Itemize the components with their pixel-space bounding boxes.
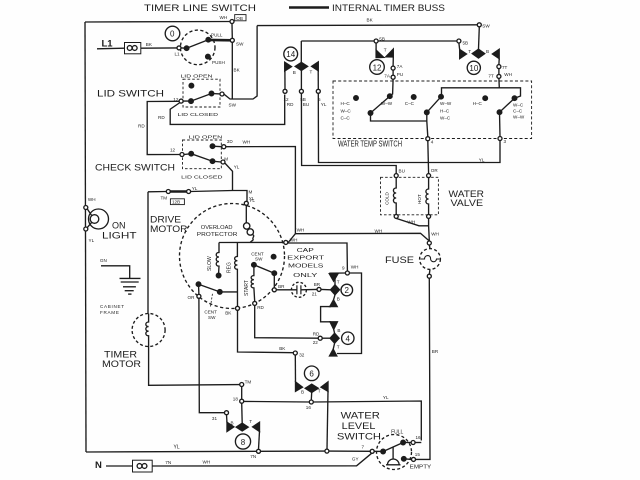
wire N run to water level switch	[152, 453, 372, 466]
right cent sw pivot	[252, 263, 257, 268]
wire between 7A terminals	[392, 70, 394, 75]
wire ground stem	[101, 266, 130, 278]
contact dot lid open	[189, 83, 194, 88]
cam 2 bottom flag	[330, 300, 337, 307]
svg-text:T: T	[384, 47, 387, 52]
wire 7A into water temp switch	[390, 79, 393, 96]
cam 10 left flag	[460, 50, 467, 59]
wire cam2 diamond to bottom flag	[334, 295, 336, 300]
terminal 15 of WLS	[412, 457, 416, 461]
svg-text:T: T	[318, 389, 321, 394]
left cent sw pivot	[198, 284, 200, 294]
svg-text:TM: TM	[245, 380, 252, 385]
svg-text:SWITCH: SWITCH	[337, 432, 381, 442]
svg-text:T: T	[337, 344, 340, 349]
terminal TM	[240, 383, 244, 387]
wire N lead	[106, 465, 133, 467]
timer cam circle 4	[342, 332, 354, 344]
svg-text:6: 6	[309, 370, 314, 379]
WLS arm to FULL	[383, 443, 403, 452]
left cent sw arm	[199, 284, 220, 292]
svg-text:BK: BK	[225, 311, 232, 316]
check switch arm	[184, 154, 213, 162]
wire WTS internal 7T bar	[442, 88, 521, 98]
terminal SW of buss	[477, 23, 481, 27]
contact dot right arm end	[272, 271, 277, 276]
svg-text:WATER: WATER	[341, 411, 381, 421]
wire cam4 to bottom flag	[333, 343, 334, 349]
svg-text:MOTOR: MOTOR	[150, 224, 188, 234]
svg-text:VALVE: VALVE	[451, 198, 484, 208]
wire timer motor to TM terminal	[149, 347, 240, 386]
svg-text:TM: TM	[161, 196, 168, 201]
wire connector to M junction	[191, 191, 247, 202]
svg-text:PROTECTOR: PROTECTOR	[197, 232, 238, 238]
terminal 7T lower (WH)	[497, 74, 501, 78]
wire cam4 stem	[333, 329, 336, 333]
water temp switch dashed box	[333, 81, 532, 139]
svg-text:TIMER LINE SWITCH: TIMER LINE SWITCH	[144, 3, 256, 13]
svg-text:FRAME: FRAME	[100, 310, 120, 315]
WLS pivot dot	[381, 449, 386, 454]
terminal 7 of WLS	[370, 449, 374, 453]
svg-text:GY: GY	[352, 456, 359, 461]
svg-text:LID OPEN: LID OPEN	[189, 134, 223, 139]
timer motor dashed circle	[132, 314, 165, 347]
terminal TM connector right	[187, 190, 191, 194]
svg-text:7: 7	[362, 445, 365, 450]
legend thick line INTERNAL TIMER BUSS	[289, 6, 329, 9]
wire cam14 stem from 5B corner	[300, 41, 302, 63]
cam 2 top flag	[329, 274, 338, 282]
lid switch arm	[183, 94, 211, 102]
svg-text:H–C: H–C	[473, 101, 483, 106]
svg-text:BK: BK	[279, 346, 286, 351]
WTS arm 2	[427, 97, 441, 113]
contact dot F	[512, 96, 517, 101]
cam 6 left flag	[296, 382, 303, 391]
wire 5B-1 drop	[375, 43, 377, 50]
svg-text:4: 4	[346, 335, 351, 344]
timer cam circle 12	[370, 60, 385, 75]
svg-text:16: 16	[306, 405, 312, 410]
svg-text:B: B	[337, 297, 340, 302]
svg-text:7T: 7T	[502, 65, 508, 70]
svg-text:3D: 3D	[227, 139, 234, 144]
wire L1 lead-in	[97, 47, 125, 50]
svg-text:12B: 12B	[172, 200, 180, 205]
wire 7A drop	[392, 57, 394, 66]
contact dot A	[354, 96, 359, 101]
terminal 16 of WLS	[411, 441, 415, 445]
svg-text:SW: SW	[255, 257, 263, 262]
svg-text:LID OPEN: LID OPEN	[181, 73, 213, 78]
START coil	[251, 265, 255, 302]
terminal WH of motor	[284, 240, 288, 244]
svg-text:BK: BK	[234, 68, 241, 73]
connector plug on N line	[133, 460, 153, 472]
svg-text:W–C: W–C	[341, 109, 352, 114]
svg-text:SW: SW	[236, 41, 244, 46]
terminal 5 YL	[316, 89, 320, 93]
terminal WH on left frame (on light top)	[84, 206, 88, 210]
cam 8 right flag	[253, 422, 260, 431]
wire BR to capacitor	[276, 289, 297, 291]
connector label box OB	[235, 15, 246, 21]
svg-text:B: B	[231, 420, 234, 425]
wire OR drop to 31	[199, 298, 225, 412]
svg-text:7A: 7A	[397, 64, 404, 69]
wire RD motor to 22	[255, 305, 319, 338]
svg-text:H–C: H–C	[440, 108, 450, 113]
svg-text:8: 8	[241, 438, 246, 447]
timer cam circle 10	[467, 61, 480, 74]
wire between 7T terminals	[498, 69, 500, 75]
terminal BR of motor	[272, 288, 276, 292]
cam 12 left flag	[376, 50, 384, 58]
terminal RD of motor	[253, 301, 257, 305]
svg-text:INTERNAL TIMER BUSS: INTERNAL TIMER BUSS	[332, 3, 445, 13]
contact dot PULL	[206, 37, 211, 42]
svg-text:C–C: C–C	[341, 116, 351, 121]
svg-text:M: M	[249, 190, 253, 195]
wire 7T drop	[498, 59, 500, 65]
connector label box 12B	[170, 199, 184, 205]
contact dot check upper (3D)	[210, 144, 215, 149]
svg-text:WH: WH	[375, 228, 383, 233]
timer line switch dashed circle	[180, 30, 215, 65]
svg-text:EMPTY: EMPTY	[410, 464, 432, 470]
motor internal bus bar	[219, 241, 284, 243]
wire junction to fuse	[428, 245, 431, 249]
svg-text:W–C: W–C	[513, 102, 524, 107]
terminal cold bottom	[394, 214, 398, 218]
cam 6 right flag	[321, 382, 328, 391]
svg-text:COLD: COLD	[384, 191, 389, 204]
cam 12 right flag	[386, 49, 394, 57]
svg-text:WH: WH	[220, 15, 228, 20]
terminal M of check switch	[221, 160, 225, 164]
contact dot PUSH	[206, 54, 211, 59]
svg-text:YL: YL	[383, 395, 389, 400]
svg-text:MODELS: MODELS	[288, 263, 324, 269]
svg-text:OR: OR	[431, 168, 439, 173]
svg-text:21: 21	[312, 291, 318, 296]
contact dot D	[439, 94, 444, 99]
svg-text:FUSE: FUSE	[385, 255, 414, 265]
cam 4 top flag	[330, 322, 337, 330]
terminal 12 of lid switch	[179, 99, 183, 103]
wire lid 12 to RD run (to cam 14)	[170, 95, 285, 125]
wire 21 to cam 2	[321, 288, 331, 290]
cam 10 right flag	[492, 49, 499, 58]
wire lid switch SW to riser	[224, 26, 257, 99]
svg-text:WH: WH	[243, 140, 251, 145]
terminal 12 of check switch	[180, 153, 184, 157]
svg-text:CHECK SWITCH: CHECK SWITCH	[95, 163, 175, 173]
cam 6 diamond	[305, 384, 318, 392]
terminal 9 WH	[345, 271, 349, 275]
svg-text:YL: YL	[249, 198, 255, 203]
svg-text:PU: PU	[397, 72, 403, 77]
svg-text:BK: BK	[367, 18, 374, 23]
svg-text:7T: 7T	[488, 73, 494, 78]
svg-text:18: 18	[233, 397, 239, 402]
wire BU drop to water valve	[301, 93, 396, 173]
terminal 7A lower (PU)	[391, 75, 395, 79]
terminal 22 RD	[318, 336, 322, 340]
svg-text:WH: WH	[504, 72, 512, 77]
terminal 32	[293, 351, 297, 355]
terminal M YL of motor	[244, 201, 248, 205]
svg-text:32: 32	[299, 353, 305, 358]
wire SW up to OB junction	[231, 24, 233, 39]
timer sequence circle 0	[165, 26, 180, 41]
svg-text:C–C: C–C	[513, 108, 523, 113]
contact dot slow end	[216, 273, 221, 278]
svg-text:BR: BR	[432, 349, 439, 354]
svg-text:7N: 7N	[165, 460, 171, 465]
contact dot lid closed pivot	[189, 99, 194, 104]
contact dot arm end	[209, 91, 214, 96]
svg-text:YL: YL	[234, 165, 240, 170]
svg-text:HOT: HOT	[417, 194, 422, 204]
wire TM to 18	[241, 387, 243, 400]
svg-text:9: 9	[342, 265, 345, 270]
wire WH motor to fuse junction	[288, 233, 430, 243]
svg-text:3: 3	[504, 139, 507, 144]
right cent sw arm	[254, 265, 274, 273]
cam 8 diamond	[236, 423, 248, 431]
wire 32 to cam 6	[294, 355, 296, 382]
contact dot EMPTY	[402, 457, 407, 462]
cam 14 diamond	[295, 62, 307, 70]
svg-text:ONLY: ONLY	[293, 273, 318, 279]
pivot dot P3	[497, 110, 502, 115]
terminal YL on left frame (on light bottom)	[84, 227, 88, 231]
wire 18 to cam 8	[241, 403, 244, 423]
terminal 31	[225, 411, 229, 415]
svg-text:CENT: CENT	[204, 309, 217, 314]
lid switch dashed box	[183, 79, 220, 107]
terminal 21	[317, 287, 321, 291]
fuse element	[421, 256, 440, 262]
wire terminal 4 to water valve OR	[427, 141, 430, 174]
wire M to TM junction	[225, 163, 233, 191]
svg-text:15: 15	[415, 452, 421, 457]
WTS arm 1	[371, 96, 390, 113]
drive motor dashed circle	[180, 204, 285, 309]
svg-text:10: 10	[469, 64, 478, 73]
terminal OB junction	[230, 20, 234, 24]
svg-text:16: 16	[416, 435, 422, 440]
svg-text:RD: RD	[257, 305, 264, 310]
HOT coil	[426, 178, 429, 215]
svg-text:WH: WH	[431, 232, 439, 237]
wire BK down from SW to lid switch	[231, 42, 233, 99]
wire cam8 right flag to 7N	[259, 431, 260, 449]
svg-text:2: 2	[345, 286, 350, 295]
terminal OR of water valve	[427, 174, 431, 178]
svg-text:PULL: PULL	[211, 33, 223, 38]
cam 4 bottom flag	[330, 349, 337, 356]
wire cam 2 stem	[334, 273, 336, 285]
wire 31 to cam 8 left flag	[226, 415, 229, 423]
wire 7T into water temp switch	[498, 78, 500, 87]
switch arm to PULL contact	[187, 40, 209, 49]
capacitor plates	[296, 285, 298, 294]
timer cam circle 2	[341, 284, 353, 296]
wire left frame	[85, 22, 86, 452]
svg-text:START: START	[244, 280, 250, 296]
svg-text:M: M	[224, 157, 228, 162]
wire jog cam2 to cam4	[321, 307, 331, 322]
svg-text:YL: YL	[192, 186, 198, 191]
svg-text:WATER TEMP SWITCH: WATER TEMP SWITCH	[338, 138, 402, 148]
svg-text:0: 0	[170, 30, 175, 39]
COLD coil	[393, 178, 396, 215]
svg-text:WH: WH	[203, 460, 211, 465]
svg-text:CAP: CAP	[297, 248, 315, 254]
svg-text:SW: SW	[229, 103, 237, 108]
terminal OR of motor	[197, 294, 201, 298]
contact dot E H-C	[483, 96, 488, 101]
fuse dashed circle	[420, 249, 441, 270]
svg-text:LEVEL: LEVEL	[342, 421, 376, 431]
pivot dot P2	[425, 110, 430, 115]
water valve dashed box	[381, 177, 439, 215]
terminal SW of timer line switch	[230, 38, 234, 42]
capacitor dashed circle	[291, 282, 306, 297]
svg-text:12: 12	[170, 148, 176, 153]
svg-text:BR: BR	[314, 282, 321, 287]
svg-text:B: B	[301, 389, 304, 394]
wire cap export bracket to 9	[288, 243, 347, 271]
svg-text:LID CLOSED: LID CLOSED	[181, 175, 223, 180]
terminal hot bottom	[427, 214, 431, 218]
cam 2 diamond	[331, 285, 340, 295]
wire cam6 to 16	[310, 392, 312, 400]
svg-text:SW: SW	[208, 315, 216, 320]
timer cam circle 6	[304, 366, 319, 381]
wire WH water valve out	[396, 218, 428, 225]
wire 18-16-YL run	[244, 400, 310, 403]
wire SW drop to cam 10	[478, 27, 481, 49]
wire BR fuse to water level switch 15	[416, 278, 431, 459]
svg-text:YL: YL	[321, 102, 327, 107]
timer cam circle 8	[235, 434, 250, 449]
cam 14 left flag	[285, 62, 292, 71]
wire P3 to terminal 3	[499, 112, 502, 136]
terminal BU of water valve	[394, 174, 398, 178]
svg-text:BU: BU	[303, 102, 309, 107]
terminal 5B left	[374, 39, 378, 43]
svg-text:4: 4	[431, 139, 434, 144]
svg-text:LIGHT: LIGHT	[102, 230, 137, 240]
terminal 3D of check switch	[222, 145, 226, 149]
svg-text:T: T	[468, 49, 471, 54]
svg-text:YL: YL	[89, 238, 95, 243]
contact dot FULL	[401, 440, 406, 445]
wire BK motor to 32	[238, 310, 294, 352]
svg-text:TIMER: TIMER	[104, 350, 138, 360]
svg-text:GN: GN	[100, 258, 107, 263]
svg-text:7A: 7A	[384, 74, 391, 79]
svg-text:SLOW: SLOW	[207, 256, 213, 271]
svg-text:WH: WH	[290, 237, 298, 242]
wire BK top run to cam 10	[257, 24, 479, 27]
cam 14 right flag	[312, 62, 319, 71]
svg-text:OB: OB	[236, 16, 243, 21]
wire 5B horizontal run	[301, 40, 459, 42]
terminal L1 of timer line switch	[177, 46, 181, 50]
svg-text:YL: YL	[174, 445, 180, 451]
wire TM connector run	[148, 191, 166, 193]
contact dot left arm end	[218, 290, 223, 295]
connector plug on L1 line	[125, 43, 141, 54]
contact dot check pivot	[189, 151, 194, 156]
svg-text:RD: RD	[158, 115, 165, 120]
svg-text:WH: WH	[88, 197, 96, 202]
terminal 4	[426, 137, 430, 141]
wire BK from plug to switch	[141, 47, 177, 49]
svg-text:T: T	[310, 70, 313, 75]
check switch dashed box	[183, 140, 222, 169]
svg-text:W–W: W–W	[513, 114, 525, 119]
svg-text:B: B	[337, 328, 340, 333]
svg-text:PUSH: PUSH	[212, 60, 225, 65]
overload protector symbol	[245, 205, 247, 223]
terminal 7T upper	[497, 65, 501, 69]
svg-text:CABINET: CABINET	[100, 304, 125, 309]
svg-text:B: B	[293, 70, 296, 75]
terminal 12 RD	[283, 89, 287, 93]
svg-text:L1: L1	[175, 52, 181, 57]
svg-text:EXPORT: EXPORT	[287, 256, 324, 262]
svg-text:DRIVE: DRIVE	[150, 215, 181, 225]
cabinet frame ground symbol	[120, 277, 141, 279]
wire capacitor to terminal 21	[301, 288, 317, 290]
wire cam6 right flag to GY terminal	[327, 391, 328, 449]
svg-text:WH: WH	[408, 220, 416, 225]
svg-text:FULL: FULL	[391, 429, 403, 435]
on light filament	[90, 215, 99, 224]
timer cam circle 14	[284, 47, 298, 61]
wire cam14 left drop to terminal	[284, 71, 286, 89]
svg-text:BU: BU	[399, 169, 405, 174]
svg-text:WH: WH	[351, 265, 359, 270]
svg-text:WH: WH	[297, 227, 305, 232]
terminal 16	[309, 400, 313, 404]
thick buss PULL to SW	[208, 39, 232, 42]
svg-text:RD: RD	[138, 123, 145, 128]
svg-text:W–W: W–W	[440, 101, 452, 106]
svg-text:RD: RD	[287, 102, 294, 107]
svg-text:LID CLOSED: LID CLOSED	[178, 112, 219, 117]
svg-text:22: 22	[313, 340, 319, 345]
contact dot right stationary	[271, 254, 276, 259]
svg-text:H–C: H–C	[341, 101, 351, 106]
wire P1 P2 to terminal 4	[371, 113, 427, 121]
contact dot B W-W	[388, 94, 393, 99]
wire timer motor feed	[147, 192, 149, 314]
SLOW coil	[216, 243, 219, 274]
thick connector TM-12B	[170, 190, 186, 193]
terminal 3	[498, 137, 502, 141]
wire lid 12 left loop to check 12	[147, 101, 180, 154]
contact dot C C-C	[411, 95, 416, 100]
wire buss line at 9	[329, 272, 345, 274]
